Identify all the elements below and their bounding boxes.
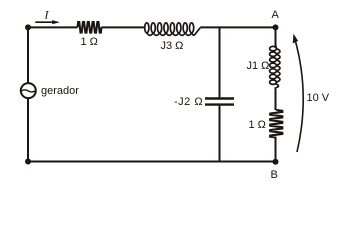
svg-text:-J2 Ω: -J2 Ω [174,96,203,108]
svg-text:1 Ω: 1 Ω [81,36,98,48]
svg-text:J1 Ω: J1 Ω [247,60,270,72]
svg-text:A: A [272,9,280,21]
svg-text:J3 Ω: J3 Ω [161,40,184,52]
svg-text:B: B [271,169,278,181]
svg-text:I: I [44,7,50,21]
svg-text:1 Ω: 1 Ω [249,119,266,131]
svg-text:gerador: gerador [41,85,79,97]
svg-text:10 V: 10 V [307,92,330,104]
